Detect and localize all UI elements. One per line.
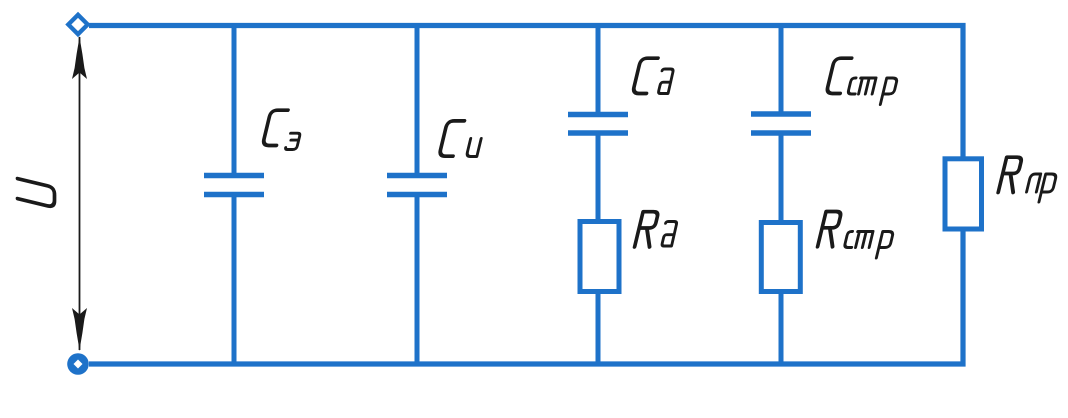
terminal top (diamond) [68,15,87,34]
wire: branch 2 lower [415,195,420,365]
capacitor Cu plates [387,173,447,179]
resistor Rstr [761,223,800,292]
arrowhead down [72,308,87,351]
label Rd [635,212,678,247]
capacitor Cstr plates [751,111,811,117]
wire: branch 1 upper (to C3 top plate) [232,23,237,175]
wire: branch 1 lower (C3 bottom plate to bottom bus) [232,195,237,365]
label Cd [632,58,673,93]
dimension line U (black) [79,37,81,350]
label Cu [439,121,481,157]
label Rpr [998,157,1057,202]
wire: branch 4 upper (to Cstr top plate) [779,23,784,114]
label U (rotated) [18,179,55,208]
label C3 [262,110,300,149]
wire: branch 2 upper (to Cu top plate) [415,23,420,175]
arrowhead up [72,36,87,79]
label Rstr [818,212,894,259]
wire: branch 3 upper (to Cd top plate) [596,23,601,114]
terminal bottom (rounded diamond) [67,353,89,375]
capacitor Cd plates [568,112,628,118]
wire: branch 4 lower (Cstr bottom plate through Rstr to bottom bus) [779,133,784,364]
wire: branch 3 lower (Cd bottom plate through Rd to bottom bus) [596,133,601,364]
capacitor C3 plates [204,173,264,179]
wire: top bus, right edge, bottom bus [89,26,963,365]
resistor Rd [580,222,619,292]
resistor Rpr (on right edge) [945,159,982,229]
label Cstr [826,58,897,104]
